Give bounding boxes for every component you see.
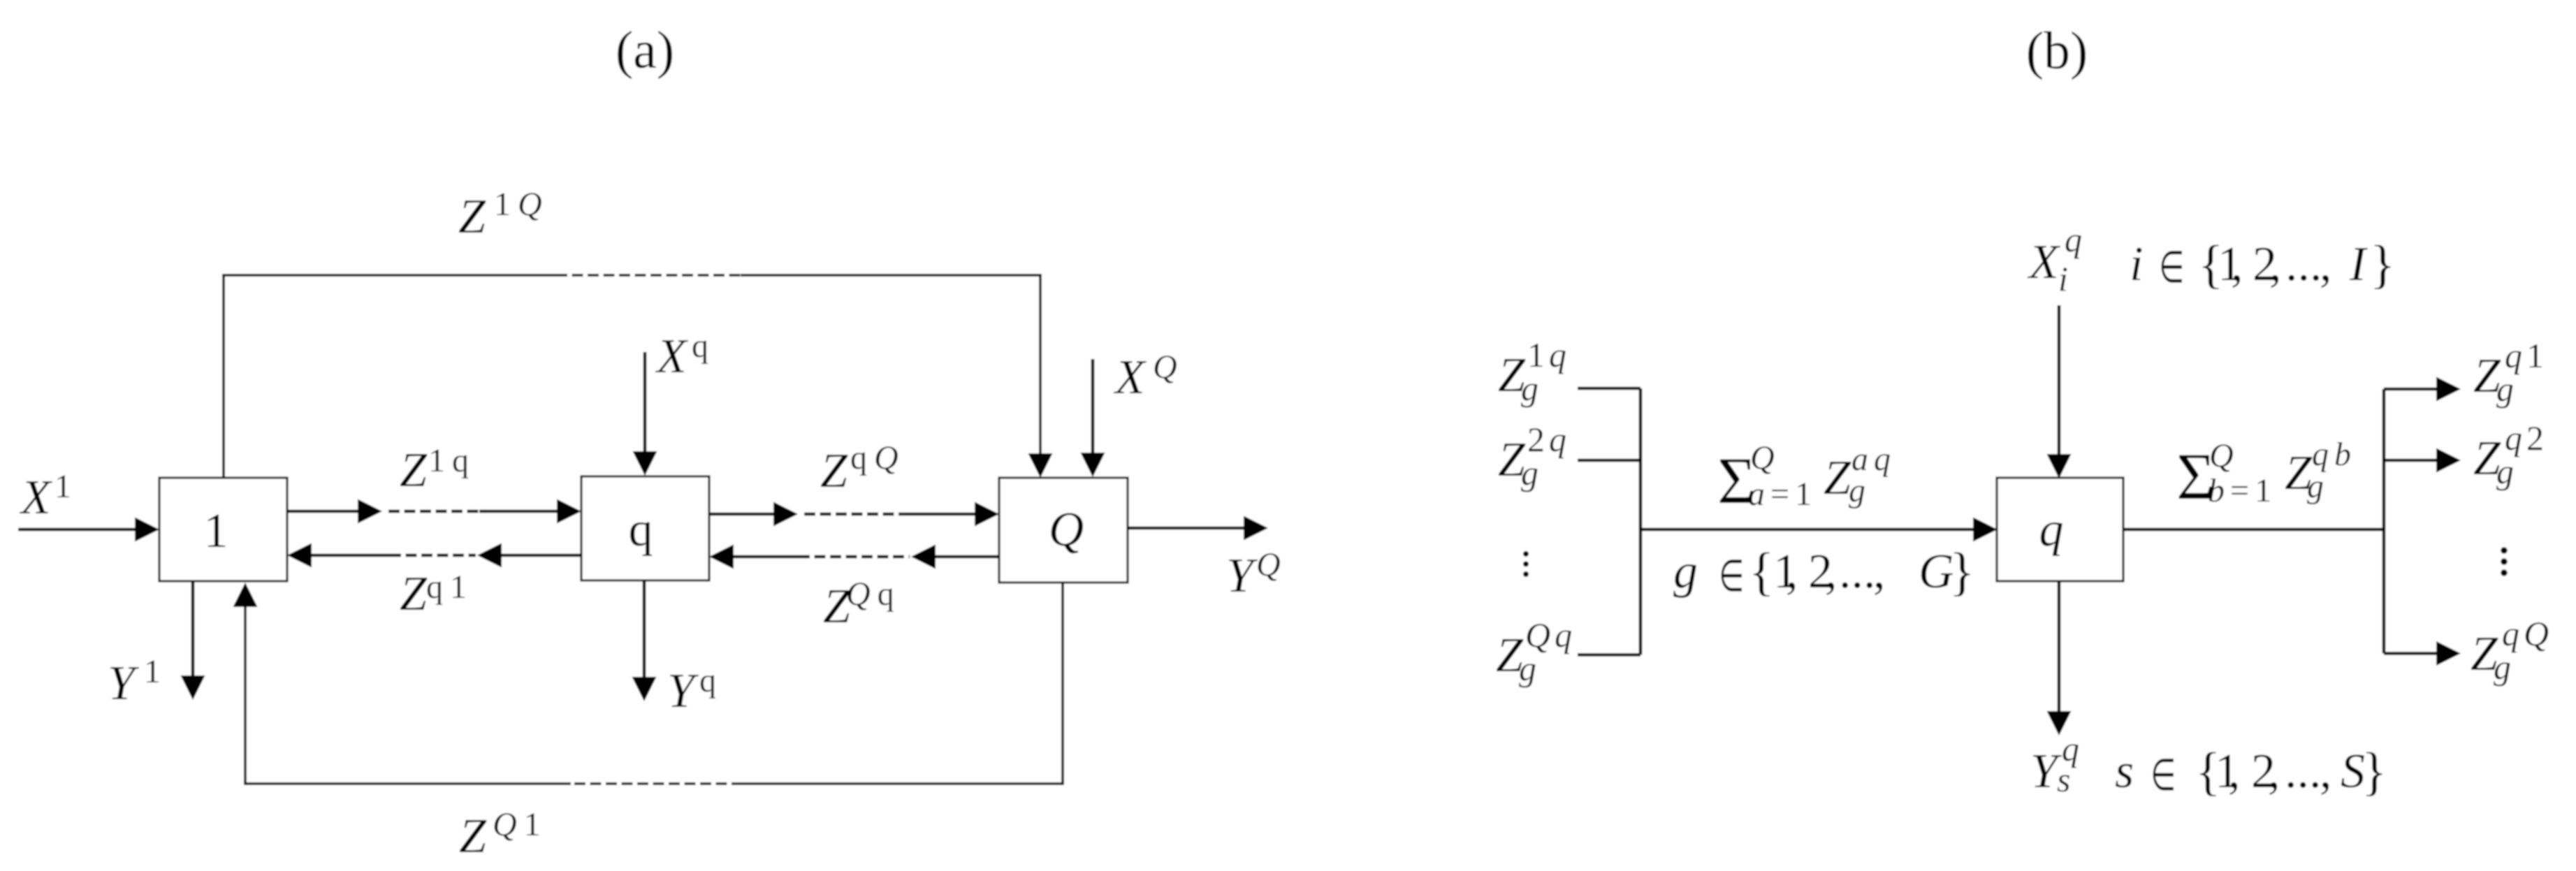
wire stub 2 xyxy=(1578,459,1640,462)
svg-text:g: g xyxy=(1521,453,1538,492)
svg-text:g: g xyxy=(2496,369,2514,409)
svg-text:a=1: a=1 xyxy=(1748,476,1817,513)
arrowhead 1q end xyxy=(557,499,581,524)
arrowhead Yq xyxy=(632,677,657,701)
arrowhead q1 end xyxy=(287,543,312,568)
svg-text:q: q xyxy=(629,503,653,557)
svg-text:X: X xyxy=(2027,235,2061,289)
wire q to Q dashed xyxy=(804,513,903,516)
arrowhead XQ xyxy=(1081,453,1105,477)
svg-text:Z: Z xyxy=(820,444,848,498)
svg-text:X: X xyxy=(1113,351,1147,404)
wire right bracket vertical xyxy=(2382,389,2386,654)
wire Q to q dashed xyxy=(799,555,910,559)
svg-text:...: ... xyxy=(2285,745,2322,798)
svg-text:X: X xyxy=(19,471,53,525)
svg-text:g: g xyxy=(1521,369,1538,408)
svg-text:i: i xyxy=(2058,259,2068,298)
svg-text:∈: ∈ xyxy=(1719,552,1745,601)
wire 1 to q dashed xyxy=(388,510,479,513)
svg-text:...: ... xyxy=(1839,545,1876,599)
svg-text:,: , xyxy=(2269,237,2282,291)
wire XQ input xyxy=(1091,359,1095,454)
svg-text:Z: Z xyxy=(1824,451,1851,505)
svg-text:1: 1 xyxy=(204,504,228,558)
arrowhead branch 3 xyxy=(2436,641,2461,666)
wire sum output xyxy=(2123,528,2384,532)
arrowhead qQ end xyxy=(975,502,999,527)
wire Z1Q feedback left and top xyxy=(224,275,556,478)
wire branch 1 xyxy=(2384,388,2436,391)
svg-text:1q: 1q xyxy=(428,442,476,479)
svg-text:...: ... xyxy=(2285,237,2322,291)
svg-text:{: { xyxy=(1749,543,1774,601)
arrowhead q1 mid xyxy=(477,543,502,568)
wire ZQ1 feedback left xyxy=(245,607,571,784)
wire 1 to q solid b xyxy=(479,510,557,513)
svg-text:Q: Q xyxy=(1750,439,1775,476)
arrowhead Xq xyxy=(633,451,657,476)
arrowhead YQ xyxy=(1244,516,1268,541)
arrowhead ZQ1 xyxy=(233,583,258,607)
svg-text:,: , xyxy=(2228,745,2241,798)
arrowhead Qq mid xyxy=(911,545,936,569)
svg-text:Z: Z xyxy=(400,444,428,497)
box Q xyxy=(999,478,1128,583)
wire branch 2 xyxy=(2384,459,2436,462)
wire Z1Q feedback right xyxy=(741,275,1040,455)
arrowhead 1q mid xyxy=(358,499,382,524)
wire sum input xyxy=(1640,528,1973,532)
svg-text:Q: Q xyxy=(1049,503,1084,557)
svg-text:Q: Q xyxy=(2209,437,2234,474)
svg-text:∈: ∈ xyxy=(2151,751,2176,800)
svg-text:g: g xyxy=(2307,468,2324,505)
wire q to 1 dashed xyxy=(390,554,476,557)
svg-text:(b): (b) xyxy=(2026,22,2088,80)
svg-text:Z: Z xyxy=(459,810,487,863)
wire q to 1 solid b xyxy=(502,554,581,557)
svg-text:X: X xyxy=(655,330,689,383)
wire Z1Q feedback dashed xyxy=(556,274,741,277)
svg-text:Qq: Qq xyxy=(846,576,901,613)
box q xyxy=(581,476,709,580)
svg-text:,: , xyxy=(2320,745,2332,798)
wire X1 input xyxy=(18,528,135,532)
svg-text:g: g xyxy=(1519,649,1536,688)
svg-text:g: g xyxy=(2496,452,2514,491)
svg-text:1: 1 xyxy=(144,653,161,690)
svg-text:g: g xyxy=(2494,647,2511,687)
svg-text:qQ: qQ xyxy=(850,439,905,476)
svg-text:(a): (a) xyxy=(616,21,674,80)
wire Ysq output xyxy=(2058,582,2061,711)
wire ZQ1 feedback right and bottom xyxy=(743,583,1063,784)
wire 1 to q solid a xyxy=(287,510,358,513)
svg-text:}: } xyxy=(2370,235,2395,294)
arrowhead qQ mid xyxy=(773,502,798,527)
svg-text:,: , xyxy=(2231,237,2243,291)
arrowhead Ysq xyxy=(2047,711,2072,735)
right dots xyxy=(2501,547,2508,576)
svg-text:Q: Q xyxy=(1256,546,1281,583)
wire left bracket vertical xyxy=(1639,388,1643,655)
arrowhead Z1Q xyxy=(1028,453,1053,478)
wire Q to q solid b xyxy=(936,555,999,559)
svg-text:s: s xyxy=(2057,760,2070,799)
svg-text:Q1: Q1 xyxy=(493,806,548,843)
arrowhead Qq end xyxy=(709,545,734,569)
svg-text:b=1: b=1 xyxy=(2208,472,2277,509)
svg-text:s: s xyxy=(2115,745,2134,798)
svg-text:,: , xyxy=(1825,545,1838,599)
arrowhead branch 2 xyxy=(2436,448,2461,473)
svg-text:,: , xyxy=(1786,545,1798,599)
svg-text:q: q xyxy=(2065,220,2082,259)
wire q to Q solid a xyxy=(708,513,773,516)
arrowhead sum input xyxy=(1973,518,1998,542)
wire stub 3 xyxy=(1578,653,1640,657)
svg-text:G: G xyxy=(1919,545,1954,599)
svg-text:,: , xyxy=(1873,545,1886,599)
svg-text:i: i xyxy=(2130,237,2143,291)
svg-text:q: q xyxy=(2039,503,2064,557)
wire q to Q solid b xyxy=(903,513,975,516)
svg-text:Z: Z xyxy=(400,567,428,621)
wire stub 1 xyxy=(1578,387,1640,390)
svg-text:q1: q1 xyxy=(426,569,474,606)
svg-text:I: I xyxy=(2349,237,2368,291)
svg-text:Q: Q xyxy=(1153,349,1177,386)
wire Xq input xyxy=(643,352,647,453)
left dots xyxy=(1523,551,1529,577)
svg-text:q: q xyxy=(699,662,716,699)
svg-text:Z: Z xyxy=(458,190,486,244)
svg-text:,: , xyxy=(2268,745,2280,798)
svg-text:}: } xyxy=(1949,543,1974,601)
wire Q to q solid a xyxy=(734,555,799,559)
svg-text:q: q xyxy=(692,328,708,365)
arrowhead Xiq xyxy=(2047,454,2072,478)
wire q to 1 solid a xyxy=(312,554,390,557)
svg-text:1Q: 1Q xyxy=(494,186,549,223)
box qb xyxy=(1997,478,2123,581)
arrowhead Y1 xyxy=(181,675,205,700)
arrowhead branch 1 xyxy=(2436,377,2461,402)
wire ZQ1 feedback dashed xyxy=(571,782,743,785)
svg-text:g: g xyxy=(1673,545,1698,599)
svg-text:,: , xyxy=(2320,237,2332,291)
wire Xiq input xyxy=(2058,305,2061,454)
svg-text:}: } xyxy=(2362,742,2387,801)
svg-text:1: 1 xyxy=(54,468,71,505)
wire Yq output xyxy=(643,580,646,677)
svg-text:g: g xyxy=(1849,472,1865,509)
wire Y1 output xyxy=(191,581,195,675)
wire branch 3 xyxy=(2384,652,2436,655)
arrowhead X1 xyxy=(135,518,159,542)
box 1 xyxy=(159,478,287,581)
wire YQ output xyxy=(1128,527,1244,530)
svg-text:∈: ∈ xyxy=(2159,243,2185,293)
